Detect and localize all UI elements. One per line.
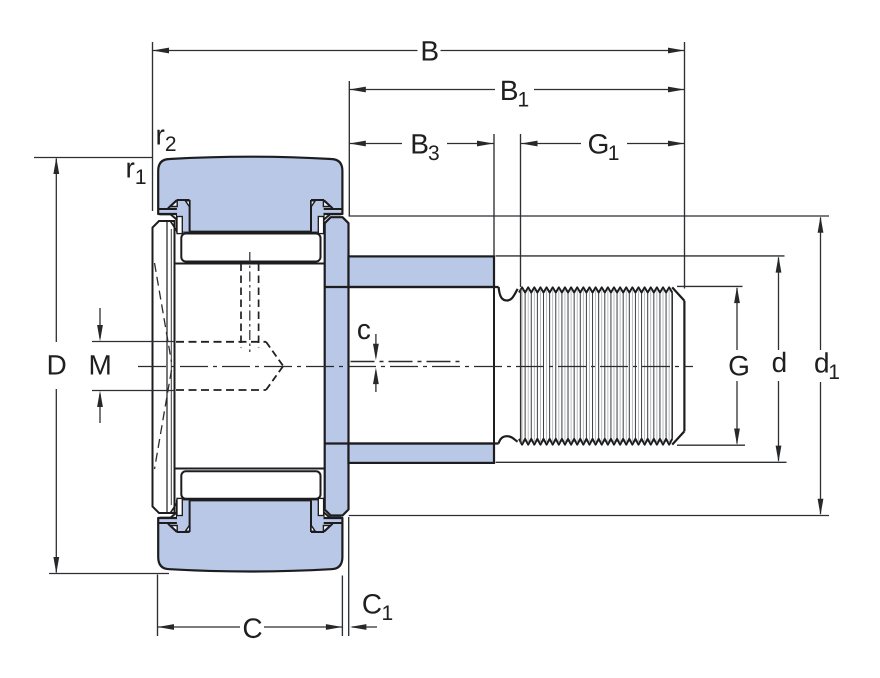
- grease duct centerline: [249, 252, 251, 352]
- extension line d bottom: [496, 461, 787, 463]
- label d: [773, 352, 786, 373]
- extension line B left: [152, 42, 154, 211]
- seal detail top-right: [324, 208, 343, 210]
- label d1: [815, 352, 839, 379]
- stud end chamfer top: [672, 287, 684, 300]
- stud bottom edge: [325, 442, 499, 444]
- washer hidden diagonal upper: [155, 263, 172, 362]
- dimension C1 arrow: [352, 626, 377, 628]
- hex socket cone lower (hidden): [266, 366, 283, 390]
- label r2: [157, 129, 175, 151]
- label C1: [363, 594, 392, 620]
- outer ring lower bore band: [177, 500, 324, 519]
- extension line M bottom: [92, 390, 175, 392]
- extension line C right: [341, 576, 343, 637]
- thread flank crest lines: [522, 289, 669, 443]
- extension line C1 right: [348, 517, 350, 636]
- grease duct left wall (hidden): [240, 264, 242, 349]
- hex socket bottom edge (hidden): [176, 389, 266, 391]
- dimension c arrows: [375, 334, 377, 357]
- thread crest bottom: [519, 439, 672, 445]
- extension line B1 left: [348, 81, 350, 217]
- end washer: [153, 221, 175, 513]
- outer ring lower cross-section: [158, 500, 342, 571]
- dimension line d: [778, 258, 780, 351]
- collar eccentric centerline: [351, 361, 461, 363]
- label C: [244, 618, 262, 638]
- ring bore line upper: [190, 231, 311, 233]
- label B: [423, 41, 438, 60]
- washer top-right chamfer: [170, 221, 177, 231]
- washer hidden diagonal lower: [155, 370, 172, 469]
- collar right end face: [493, 256, 495, 463]
- collar upper band: [349, 256, 495, 287]
- extension line d top: [496, 255, 785, 257]
- seal detail bottom-left: [158, 522, 177, 524]
- outer ring upper cross-section: [158, 157, 342, 232]
- extension line B3 right: [493, 134, 495, 256]
- dimension line G1: [521, 143, 581, 145]
- extension line B right: [684, 42, 686, 289]
- dimension line B1: [349, 89, 495, 91]
- thread crest top: [519, 287, 672, 292]
- extension line M top: [92, 341, 175, 343]
- thread first root line: [520, 289, 522, 444]
- dimension line C: [158, 626, 241, 628]
- extension line D top: [34, 157, 153, 159]
- label G: [730, 356, 748, 376]
- dimension line B: [153, 50, 418, 52]
- dimension line G: [736, 288, 738, 350]
- label M: [91, 355, 110, 374]
- stud top edge: [325, 286, 499, 288]
- seal detail top-left: [158, 208, 177, 210]
- dimension M arrows: [99, 308, 101, 338]
- extension line C left: [157, 575, 159, 637]
- hex socket cone upper (hidden): [266, 342, 283, 366]
- label D: [49, 355, 66, 374]
- stud flange: [325, 217, 349, 515]
- extension line D bottom: [49, 573, 169, 575]
- extension line d1 top: [349, 215, 830, 217]
- dimension line d1: [820, 218, 822, 351]
- washer inner line 2: [170, 229, 172, 505]
- dimension line D: [55, 159, 57, 343]
- label c: [358, 324, 370, 339]
- needle roller upper: [181, 234, 320, 262]
- extension line G top: [677, 285, 743, 287]
- washer bottom-right chamfer: [170, 503, 177, 513]
- extension line G1 left: [520, 134, 522, 287]
- stud end chamfer bottom: [672, 431, 684, 444]
- stud raceway upper: [175, 263, 325, 265]
- extension line G bottom: [677, 444, 745, 446]
- thread undercut top: [499, 287, 518, 301]
- stud raceway lower: [175, 468, 325, 470]
- grease duct right wall (hidden): [258, 264, 260, 349]
- thread runout line: [671, 293, 673, 439]
- thread flank root lines: [525, 293, 666, 438]
- outer ring upper bore band: [177, 213, 324, 232]
- thread undercut bottom: [499, 436, 518, 443]
- extension line d1 bottom: [349, 515, 829, 517]
- label B1: [502, 81, 528, 107]
- hex socket top edge (hidden): [176, 341, 266, 343]
- label r1: [127, 162, 145, 184]
- washer inner line: [166, 221, 168, 513]
- seal detail bottom-right: [324, 522, 343, 524]
- label G1: [589, 134, 618, 160]
- stud centerline: [138, 366, 693, 368]
- label B3: [413, 134, 439, 160]
- ring bore line lower: [190, 499, 311, 501]
- needle roller lower: [181, 471, 320, 499]
- dimension line B3: [349, 143, 402, 145]
- stud end face: [683, 301, 685, 431]
- collar lower band: [349, 444, 495, 463]
